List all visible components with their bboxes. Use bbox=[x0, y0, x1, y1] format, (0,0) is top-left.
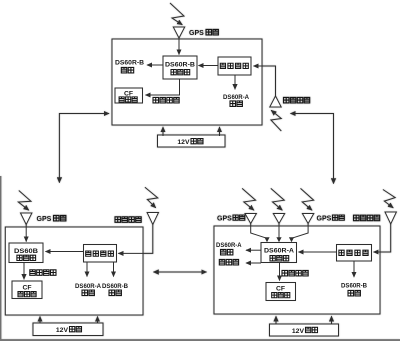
svg-text:GPS: GPS bbox=[317, 216, 332, 223]
svg-text:DS60R-B: DS60R-B bbox=[165, 62, 195, 69]
wire power to unit (right) bbox=[219, 127, 221, 136]
GPS antenna signal lightning (top) bbox=[170, 3, 184, 25]
svg-text:GPS: GPS bbox=[189, 30, 204, 37]
GPS antenna triangle (base) bbox=[21, 213, 32, 225]
wire mobile station to DS60R-B position bbox=[147, 64, 163, 66]
rover unit enclosure bbox=[214, 226, 380, 314]
wire rover receiver to DS60R-A position bbox=[246, 249, 261, 251]
wire GPS antenna 3 to rover receiver bbox=[292, 224, 309, 239]
wire data radio to DS60R-B position (rover) bbox=[353, 261, 355, 277]
wire power to unit (left) bbox=[162, 127, 164, 136]
wire power to rover unit (right) bbox=[331, 316, 333, 324]
link base unit to rover unit bbox=[154, 271, 207, 273]
base station unit enclosure bbox=[5, 227, 143, 315]
link top unit to base unit bbox=[59, 114, 109, 183]
box DS60B base receiver bbox=[9, 243, 43, 263]
svg-text:DS60R-B: DS60R-B bbox=[102, 283, 128, 290]
box CF storage card (base) bbox=[12, 281, 42, 299]
wire power to base unit (right) bbox=[97, 317, 99, 324]
svg-text:12V: 12V bbox=[56, 327, 69, 334]
svg-text:CF: CF bbox=[22, 285, 31, 292]
GPS antenna 3 lightning (rover) bbox=[301, 188, 314, 210]
GPS antenna 1 triangle (rover) bbox=[245, 214, 256, 224]
svg-text:GPS: GPS bbox=[37, 216, 52, 223]
wire data radio to rover receiver bbox=[299, 251, 337, 253]
wire data radio to DS60R-A position bbox=[234, 75, 236, 89]
svg-text:DS60R-B: DS60R-B bbox=[341, 283, 367, 290]
GPS antenna 1 lightning (rover) bbox=[242, 188, 256, 210]
wire GPS antenna to mobile station bbox=[178, 38, 180, 55]
radio antenna triangle (base) bbox=[147, 213, 158, 225]
box CF storage card (rover) bbox=[266, 283, 296, 301]
label radio antenna (base) bbox=[115, 217, 121, 223]
wire data radio to DS60R-A position (base) bbox=[86, 262, 88, 277]
wire power to base unit (left) bbox=[39, 317, 41, 324]
radio antenna wire into data radio (base) bbox=[118, 225, 153, 254]
scan artifact left edge bbox=[0, 176, 1, 341]
box data radio (rover) bbox=[337, 245, 372, 262]
box DS60R-A mobile station (rover) bbox=[261, 243, 297, 263]
radio antenna triangle (top) bbox=[270, 96, 281, 107]
radio antenna lightning (rover) bbox=[383, 190, 395, 208]
svg-text:DS60R-A: DS60R-A bbox=[216, 242, 242, 249]
wire GPS antenna 2 to rover receiver bbox=[278, 224, 280, 239]
wire data radio to base receiver bbox=[46, 251, 84, 253]
wire data radio to mobile station bbox=[199, 65, 219, 67]
wire GPS antenna 1 to rover receiver bbox=[251, 224, 267, 239]
svg-text:12V: 12V bbox=[177, 139, 190, 146]
radio antenna wire into data radio (top) bbox=[254, 66, 276, 96]
label raw data (rover) bbox=[282, 270, 288, 276]
svg-text:DS60R-A: DS60R-A bbox=[264, 247, 294, 254]
wire rover receiver to attitude angle bbox=[246, 262, 261, 264]
svg-text:12V: 12V bbox=[292, 328, 305, 335]
GPS antenna 2 lightning (rover) bbox=[271, 188, 285, 210]
scan artifact bottom edge bbox=[0, 339, 400, 341]
radio antenna triangle (rover) bbox=[385, 212, 396, 224]
wire raw data to CF card (base) bbox=[23, 263, 25, 280]
GPS antenna 3 triangle (rover) bbox=[302, 214, 313, 224]
label radio antenna (top) bbox=[284, 97, 290, 103]
wire power to rover unit (left) bbox=[275, 316, 277, 324]
label raw data (base) bbox=[30, 270, 36, 276]
label attitude angle bbox=[219, 259, 225, 265]
top mobile-station unit enclosure bbox=[112, 39, 262, 125]
box 12V power (top) bbox=[158, 135, 226, 147]
box 12V power (rover) bbox=[270, 324, 339, 336]
svg-text:CF: CF bbox=[276, 286, 285, 293]
wire raw data to CF card bbox=[146, 79, 180, 95]
label raw data (top) bbox=[153, 97, 159, 103]
GPS antenna 2 triangle (rover) bbox=[273, 214, 284, 224]
box CF storage card (top) bbox=[115, 88, 143, 103]
svg-text:DS60B: DS60B bbox=[14, 248, 38, 255]
GPS antenna triangle (top) bbox=[173, 27, 184, 38]
svg-text:DS60R-B: DS60R-B bbox=[115, 60, 144, 67]
label radio antenna (rover) bbox=[354, 215, 360, 221]
wire raw data to CF card (rover) bbox=[279, 263, 281, 281]
radio antenna wire into data radio (rover) bbox=[374, 224, 391, 252]
wire data radio to DS60R-B position (base) bbox=[113, 262, 115, 277]
box DS60R-B mobile station bbox=[163, 56, 197, 79]
svg-text:DS60R-A: DS60R-A bbox=[223, 94, 249, 101]
radio antenna lightning (base) bbox=[145, 187, 158, 207]
radio antenna lightning (top) bbox=[271, 110, 281, 131]
svg-text:DS60R-A: DS60R-A bbox=[75, 283, 101, 290]
wire GPS antenna to base receiver bbox=[25, 225, 27, 242]
link top unit to rover unit bbox=[291, 114, 334, 184]
svg-text:GPS: GPS bbox=[217, 216, 232, 223]
box 12V power (base) bbox=[33, 323, 103, 336]
GPS antenna lightning (base) bbox=[18, 191, 31, 211]
box data radio (top) bbox=[218, 57, 251, 75]
box data radio (base) bbox=[84, 245, 117, 263]
